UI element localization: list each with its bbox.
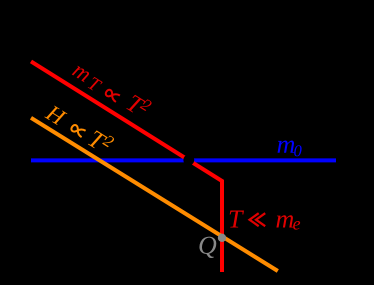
label m_T prop T^2 (red, rotated) xyxy=(70,58,152,121)
label Q (gray) xyxy=(199,237,216,258)
gray dot at point Q xyxy=(218,234,226,242)
label T much-less-than m_e (red) xyxy=(230,210,300,229)
orange Hubble line H xyxy=(31,118,278,271)
much-less-than symbol xyxy=(250,213,266,226)
label m_0 (blue) xyxy=(278,141,302,157)
black gap at red/blue crossing xyxy=(183,155,194,166)
label H prop T^2 (orange, rotated) xyxy=(44,101,115,155)
red thermal mass line m_T xyxy=(31,61,222,272)
blue line m0 level xyxy=(31,158,336,162)
